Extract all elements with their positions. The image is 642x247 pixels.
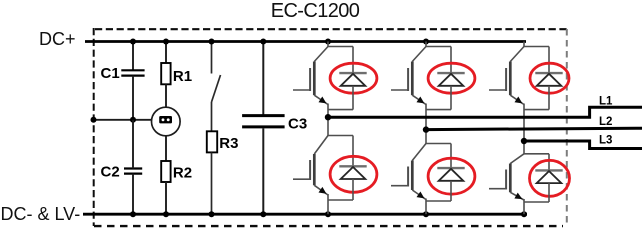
wire bottom jog from diode phase 1 high side [328,109,353,111]
highlight ellipse around diode D3 [530,63,569,93]
wire diode anode lead phase 3 low side [548,183,550,202]
wire diode cathode lead phase 3 low side [548,154,550,171]
wire emitter lead phase 1 high side [327,104,329,118]
wire emitter lead phase 1 low side [327,194,329,214]
wire collector stub phase 1 high side [327,42,329,47]
wire collector stub phase 3 high side [523,42,525,47]
wire switch to R3 [211,102,213,131]
wire top jog to diode phase 2 low side [426,143,451,145]
resistor R2 [161,161,170,182]
diode D2 (freewheel phase 2 high side) [437,73,464,86]
highlight ellipse around diode D1 [330,63,377,93]
junction at module border tap [91,117,97,123]
junction DC- / C2 [130,211,136,217]
highlight ellipse around diode D5 [428,158,475,194]
node phase 3 output [521,138,527,144]
wire diode anode lead phase 1 low side [352,179,354,200]
wire diode cathode lead phase 3 high side [548,47,550,74]
resistor R3 [207,131,217,152]
svg-text:R2: R2 [173,165,192,182]
capacitor C2 [124,169,142,174]
junction DC- / R2 [163,211,169,217]
wire bottom jog from diode phase 3 high side [524,109,549,111]
junction DC- / phase1 [325,211,331,217]
resistor R1 [161,63,170,84]
svg-text:C3: C3 [288,116,307,133]
svg-text:L3: L3 [599,135,612,147]
module boundary bottom edge [94,225,563,227]
svg-text:R1: R1 [173,68,192,85]
wire diode cathode lead phase 2 low side [450,144,452,169]
svg-text:C2: C2 [101,164,120,181]
transistor Q3 (IGBT phase 3 high side) [489,47,524,105]
wire diode anode lead phase 2 low side [450,181,452,201]
svg-text:L1: L1 [599,95,613,107]
module boundary (dashed box) top edge [95,28,567,30]
junction DC+ / R1 [163,39,169,45]
wire emitter lead phase 2 high side [425,104,427,130]
wire bottom jog from diode phase 3 low side [524,201,549,203]
junction C1/C2 mid node [130,117,136,123]
capacitor C3 (DC link) [242,116,285,127]
highlight ellipse around diode D6 [530,160,570,196]
svg-text:DC+: DC+ [39,29,76,49]
wire DC+ to R1 [165,42,167,64]
highlight ellipse around diode D2 [428,63,475,93]
diode D4 (freewheel phase 1 low side) [339,166,366,179]
wire R3 to DC- rail [211,152,213,214]
wire diode cathode lead phase 1 high side [352,47,354,74]
diode D1 (freewheel phase 1 high side) [339,73,366,86]
junction DC+ / phase2 [423,39,429,45]
wire mid node horizontal (border tap to meter) [93,119,152,121]
wire DC- & LV- bus (bottom rail) [83,213,527,216]
wire top jog to diode phase 2 high side [426,46,451,48]
wire diode cathode lead phase 2 high side [450,47,452,74]
wire collector stub phase 1 low side [327,117,329,135]
diode D5 (freewheel phase 2 low side) [437,168,464,181]
wire DC+ to C1 [132,42,134,71]
wire diode anode lead phase 3 high side [548,86,550,110]
wire top jog to diode phase 3 low side [524,153,549,155]
wire C2 to DC- rail [132,174,134,215]
wire collector stub phase 2 low side [425,130,427,144]
svg-text:L2: L2 [599,116,612,128]
svg-text:DC- & LV-: DC- & LV- [1,204,81,224]
wire R1 to meter [165,84,167,107]
capacitor C1 [121,70,144,75]
wire emitter lead phase 2 low side [425,199,427,215]
transistor Q5 (IGBT phase 2 low side) [391,144,426,200]
junction DC- / R3 [209,211,215,217]
wire DC+ to C3 [262,42,264,115]
svg-text:R3: R3 [219,135,238,152]
junction DC- / phase2 [423,211,429,217]
diode D6 (freewheel phase 3 low side) [535,170,562,183]
svg-text:EC-C1200: EC-C1200 [271,0,360,22]
switch S1 (blade) [212,75,221,102]
wire bottom jog from diode phase 1 low side [328,199,353,201]
junction DC+ / C1 [130,39,136,45]
meter / sensor symbol [152,107,181,136]
wire emitter lead phase 3 high side [523,104,525,142]
wire top jog to diode phase 3 high side [524,46,549,48]
node phase 2 output [423,126,429,132]
wire R2 to DC- rail [165,182,167,214]
wire collector stub phase 2 high side [425,42,427,47]
wire bottom jog from diode phase 2 low side [426,200,451,202]
wire DC+ to switch [211,42,213,74]
transistor Q2 (IGBT phase 2 high side) [391,47,426,105]
svg-text:C1: C1 [101,65,120,82]
wire diode cathode lead phase 1 low side [352,136,354,167]
junction DC- / C3 [260,211,266,217]
diode D3 (freewheel phase 3 high side) [535,73,562,86]
wire bottom jog from diode phase 2 high side [426,109,451,111]
wire DC+ bus (top rail) [85,40,526,43]
wire C3 to DC- rail [262,128,264,214]
transistor Q1 (IGBT phase 1 high side) [293,47,328,105]
wire output L2 [426,128,642,129]
wire top jog to diode phase 1 low side [328,135,353,137]
transistor Q4 (IGBT phase 1 low side) [293,136,328,196]
wire mid node to C2 [132,120,134,169]
junction DC+ / switch [209,39,215,45]
wire output L3 [524,141,642,149]
junction DC- / phase3 [521,211,527,217]
wire diode anode lead phase 1 high side [352,86,354,110]
wire diode anode lead phase 2 high side [450,86,452,110]
wire output L1 [328,107,642,117]
module boundary left edge [93,28,95,226]
wire C1 to mid node [132,76,134,120]
wire meter to R2 [165,136,167,161]
junction DC+ / phase1 [325,39,331,45]
highlight ellipse around diode D4 [330,156,377,192]
module boundary right edge (grey) [566,29,568,226]
transistor Q6 (IGBT phase 3 low side) [489,154,524,200]
wire collector stub phase 3 low side [523,141,525,154]
wire emitter lead phase 3 low side [523,199,525,214]
node phase 1 output [325,114,331,120]
wire top jog to diode phase 1 high side [328,46,353,48]
junction DC+ / C3 [260,39,266,45]
